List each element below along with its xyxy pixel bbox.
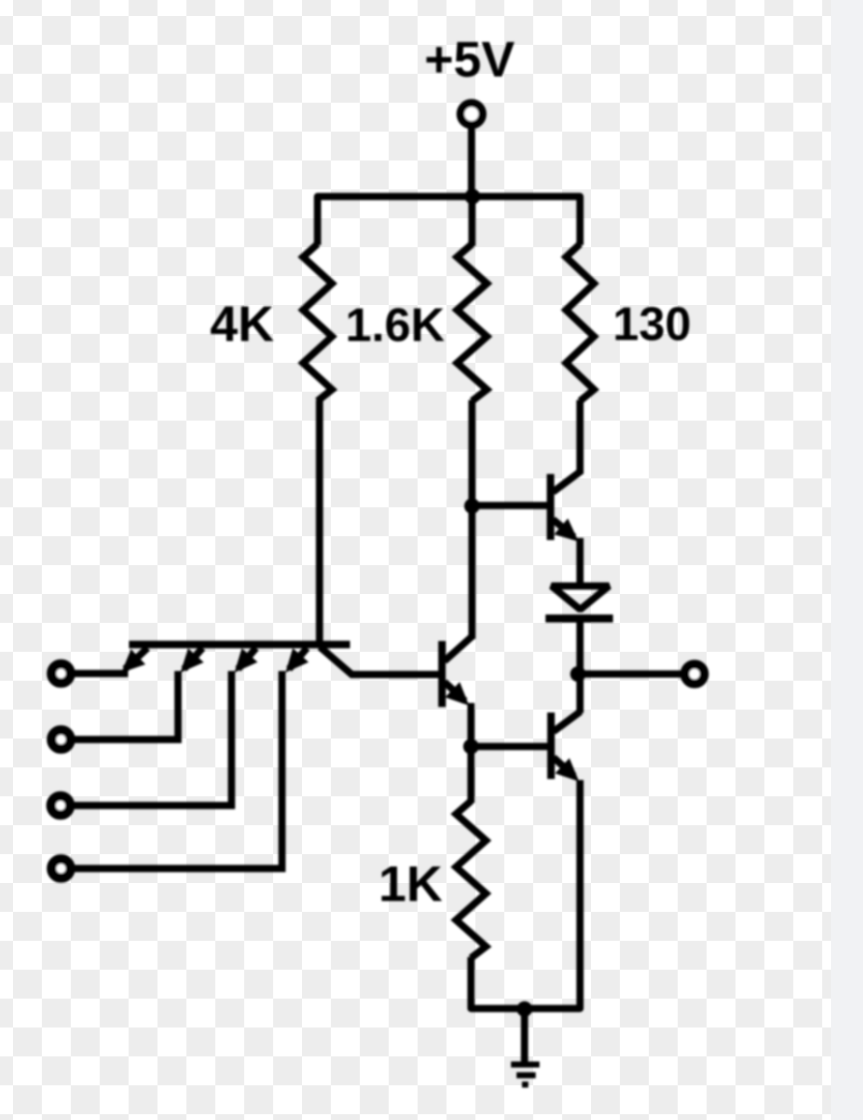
- input terminal B: [52, 730, 71, 749]
- net label +5V: [424, 32, 515, 88]
- resistor 4K: [303, 244, 332, 401]
- wire input C to Q1 emitter 3: [74, 671, 232, 806]
- node output junction: [570, 666, 586, 682]
- wire bottom rail 1K to Q4 emitter: [471, 780, 580, 1009]
- transistor Q3 collector diagonal: [553, 471, 581, 492]
- wire Q2 emitter down to 1K: [467, 703, 474, 803]
- label 1.6K: [345, 298, 444, 351]
- transistor Q4 emitter with arrow: [554, 758, 580, 782]
- wire 1.6K to Q2 collector: [468, 400, 475, 639]
- ground symbol: [511, 1065, 540, 1085]
- diode D1: [546, 586, 614, 619]
- transistor Q1 emitter 4: [286, 648, 309, 673]
- wire top supply rail with corners: [318, 197, 581, 246]
- node junction 1.6K / Q3 base: [464, 498, 480, 514]
- wire Q3 emitter to diode anode: [576, 538, 583, 587]
- node junction Q2 emitter / Q4 base / 1K: [463, 739, 479, 755]
- transistor Q4 output pull-down: base bar: [547, 713, 555, 780]
- transistor Q1 emitter 3: [235, 648, 258, 673]
- input terminal C: [51, 796, 70, 815]
- output terminal: [685, 664, 705, 684]
- label 130: [613, 297, 691, 350]
- transistor Q3 output pull-up: base bar: [547, 474, 555, 540]
- wire input B to Q1 emitter 2: [75, 671, 179, 740]
- transistor Q1 multi-emitter input: base bar: [129, 641, 350, 649]
- wire 130 to Q3 collector: [576, 400, 583, 474]
- label 4K: [210, 296, 274, 352]
- resistor 1K: [456, 801, 486, 958]
- transistor Q1 emitter 1: [122, 648, 148, 673]
- wire Q4 collector to output node: [576, 672, 583, 713]
- input terminal A: [52, 664, 71, 683]
- wire rail to 1.6K top: [468, 196, 475, 246]
- transistor Q4 collector diagonal: [554, 712, 581, 732]
- wire 4K to Q1 base: [316, 400, 323, 648]
- transistor Q2 collector diagonal: [445, 636, 474, 662]
- transistor Q1 emitter 2: [181, 648, 204, 673]
- svg-text:130: 130: [613, 297, 691, 350]
- wire Q2 emitter junction to Q4 base: [471, 743, 548, 750]
- input terminal D: [52, 859, 71, 878]
- svg-text:+5V: +5V: [424, 32, 515, 88]
- wire Q1 collector to Q2 base: [351, 671, 440, 678]
- node junction VCC-rail: [465, 189, 481, 205]
- wire output node to output terminal: [578, 670, 682, 677]
- svg-text:4K: 4K: [210, 296, 274, 352]
- wire diode cathode to output node: [576, 620, 583, 676]
- transistor Q2 phase splitter: base bar: [438, 641, 446, 707]
- wire ground stem: [521, 1008, 528, 1064]
- svg-text:1K: 1K: [379, 856, 443, 912]
- wire input D to Q1 emitter 4: [75, 671, 283, 869]
- svg-text:1.6K: 1.6K: [345, 298, 444, 351]
- transistor Q3 emitter with arrow: [553, 519, 579, 542]
- resistor 130: [566, 244, 594, 401]
- label 1K: [379, 856, 443, 912]
- resistor 1.6K: [457, 244, 487, 401]
- node junction ground: [517, 1001, 533, 1017]
- wire VCC terminal to top rail: [468, 127, 475, 198]
- transistor Q1 collector diagonal: [320, 647, 353, 676]
- transistor Q2 emitter with arrow: [445, 682, 470, 706]
- wire input A to Q1 emitter 1: [75, 670, 129, 677]
- wire 1.6K junction to Q3 base: [472, 502, 547, 509]
- terminal +5V (VCC): [461, 103, 483, 125]
